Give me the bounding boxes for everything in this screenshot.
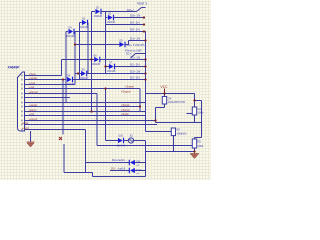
svg-text:D0+ 1N: D0+ 1N (130, 14, 140, 18)
svg-text:+5vtxd: +5vtxd (121, 103, 130, 107)
svg-text:1N4148: 1N4148 (80, 77, 89, 80)
svg-text:p-gnd: p-gnd (22, 126, 29, 130)
svg-text:D0- 1N: D0- 1N (130, 21, 140, 25)
svg-text:R3: R3 (177, 128, 181, 132)
svg-text:1N4148: 1N4148 (92, 63, 101, 66)
svg-text:C2: C2 (198, 107, 202, 111)
svg-text:D2+/net11: D2+/net11 (112, 158, 125, 162)
svg-text:D1+ 1N: D1+ 1N (130, 37, 140, 41)
svg-text:+serial: +serial (29, 103, 37, 107)
svg-text:D1+ 1N: D1+ 1N (130, 56, 140, 60)
svg-text:+txd: +txd (29, 112, 35, 116)
svg-text:1N4148: 1N4148 (107, 70, 116, 73)
svg-text:D0+/: D0+/ (127, 8, 134, 12)
svg-text:D0- 1N: D0- 1N (130, 28, 140, 32)
svg-text:+rxd: +rxd (29, 85, 35, 89)
svg-text:100k/1%: 100k/1% (177, 132, 188, 136)
svg-text:X4649P: X4649P (8, 65, 21, 69)
svg-text:100k: 100k (198, 144, 204, 148)
svg-text:D9: D9 (137, 159, 141, 163)
svg-text:+5vdtr: +5vdtr (121, 112, 129, 116)
svg-text:/net16: /net16 (118, 167, 126, 171)
svg-text:R2: R2 (198, 140, 202, 144)
svg-text:gnd-out: gnd-out (29, 90, 38, 94)
svg-text:+5vpwr: +5vpwr (125, 85, 134, 89)
svg-text:p-rxd: p-rxd (29, 81, 35, 85)
svg-text:gnd-rx: gnd-rx (29, 108, 37, 112)
svg-text:C4: C4 (168, 97, 172, 101)
svg-text:1N4148: 1N4148 (117, 145, 126, 148)
svg-text:+con-d: +con-d (29, 117, 38, 121)
svg-text:+serial: +serial (29, 76, 37, 80)
svg-text:D2- 1N: D2- 1N (130, 76, 140, 80)
svg-text:D2+ 1N: D2+ 1N (130, 70, 140, 74)
svg-text:serial: serial (22, 121, 29, 125)
svg-text:100n/63V/X7R: 100n/63V/X7R (168, 100, 185, 104)
svg-text:D16: D16 (119, 135, 124, 138)
svg-text:1N4148: 1N4148 (66, 35, 75, 38)
svg-text:X2: X2 (130, 134, 134, 138)
svg-text:D10: D10 (137, 168, 142, 172)
svg-text:1N4148: 1N4148 (80, 26, 89, 29)
svg-text:1N4148: 1N4148 (107, 21, 116, 24)
svg-text:D1- 1N: D1- 1N (130, 63, 140, 67)
svg-text:100u: 100u (198, 111, 204, 115)
svg-text:Vout 1: Vout 1 (137, 1, 147, 5)
svg-text:VCC: VCC (161, 85, 169, 89)
svg-text:1N4148: 1N4148 (94, 15, 103, 18)
svg-text:D0-: D0- (111, 167, 116, 171)
svg-text:+5vgnd: +5vgnd (121, 90, 131, 94)
svg-text:D0+ Tx/RxPh: D0+ Tx/RxPh (127, 43, 145, 47)
svg-text:+5vcc: +5vcc (29, 72, 37, 76)
svg-text:1N4148: 1N4148 (66, 83, 75, 86)
